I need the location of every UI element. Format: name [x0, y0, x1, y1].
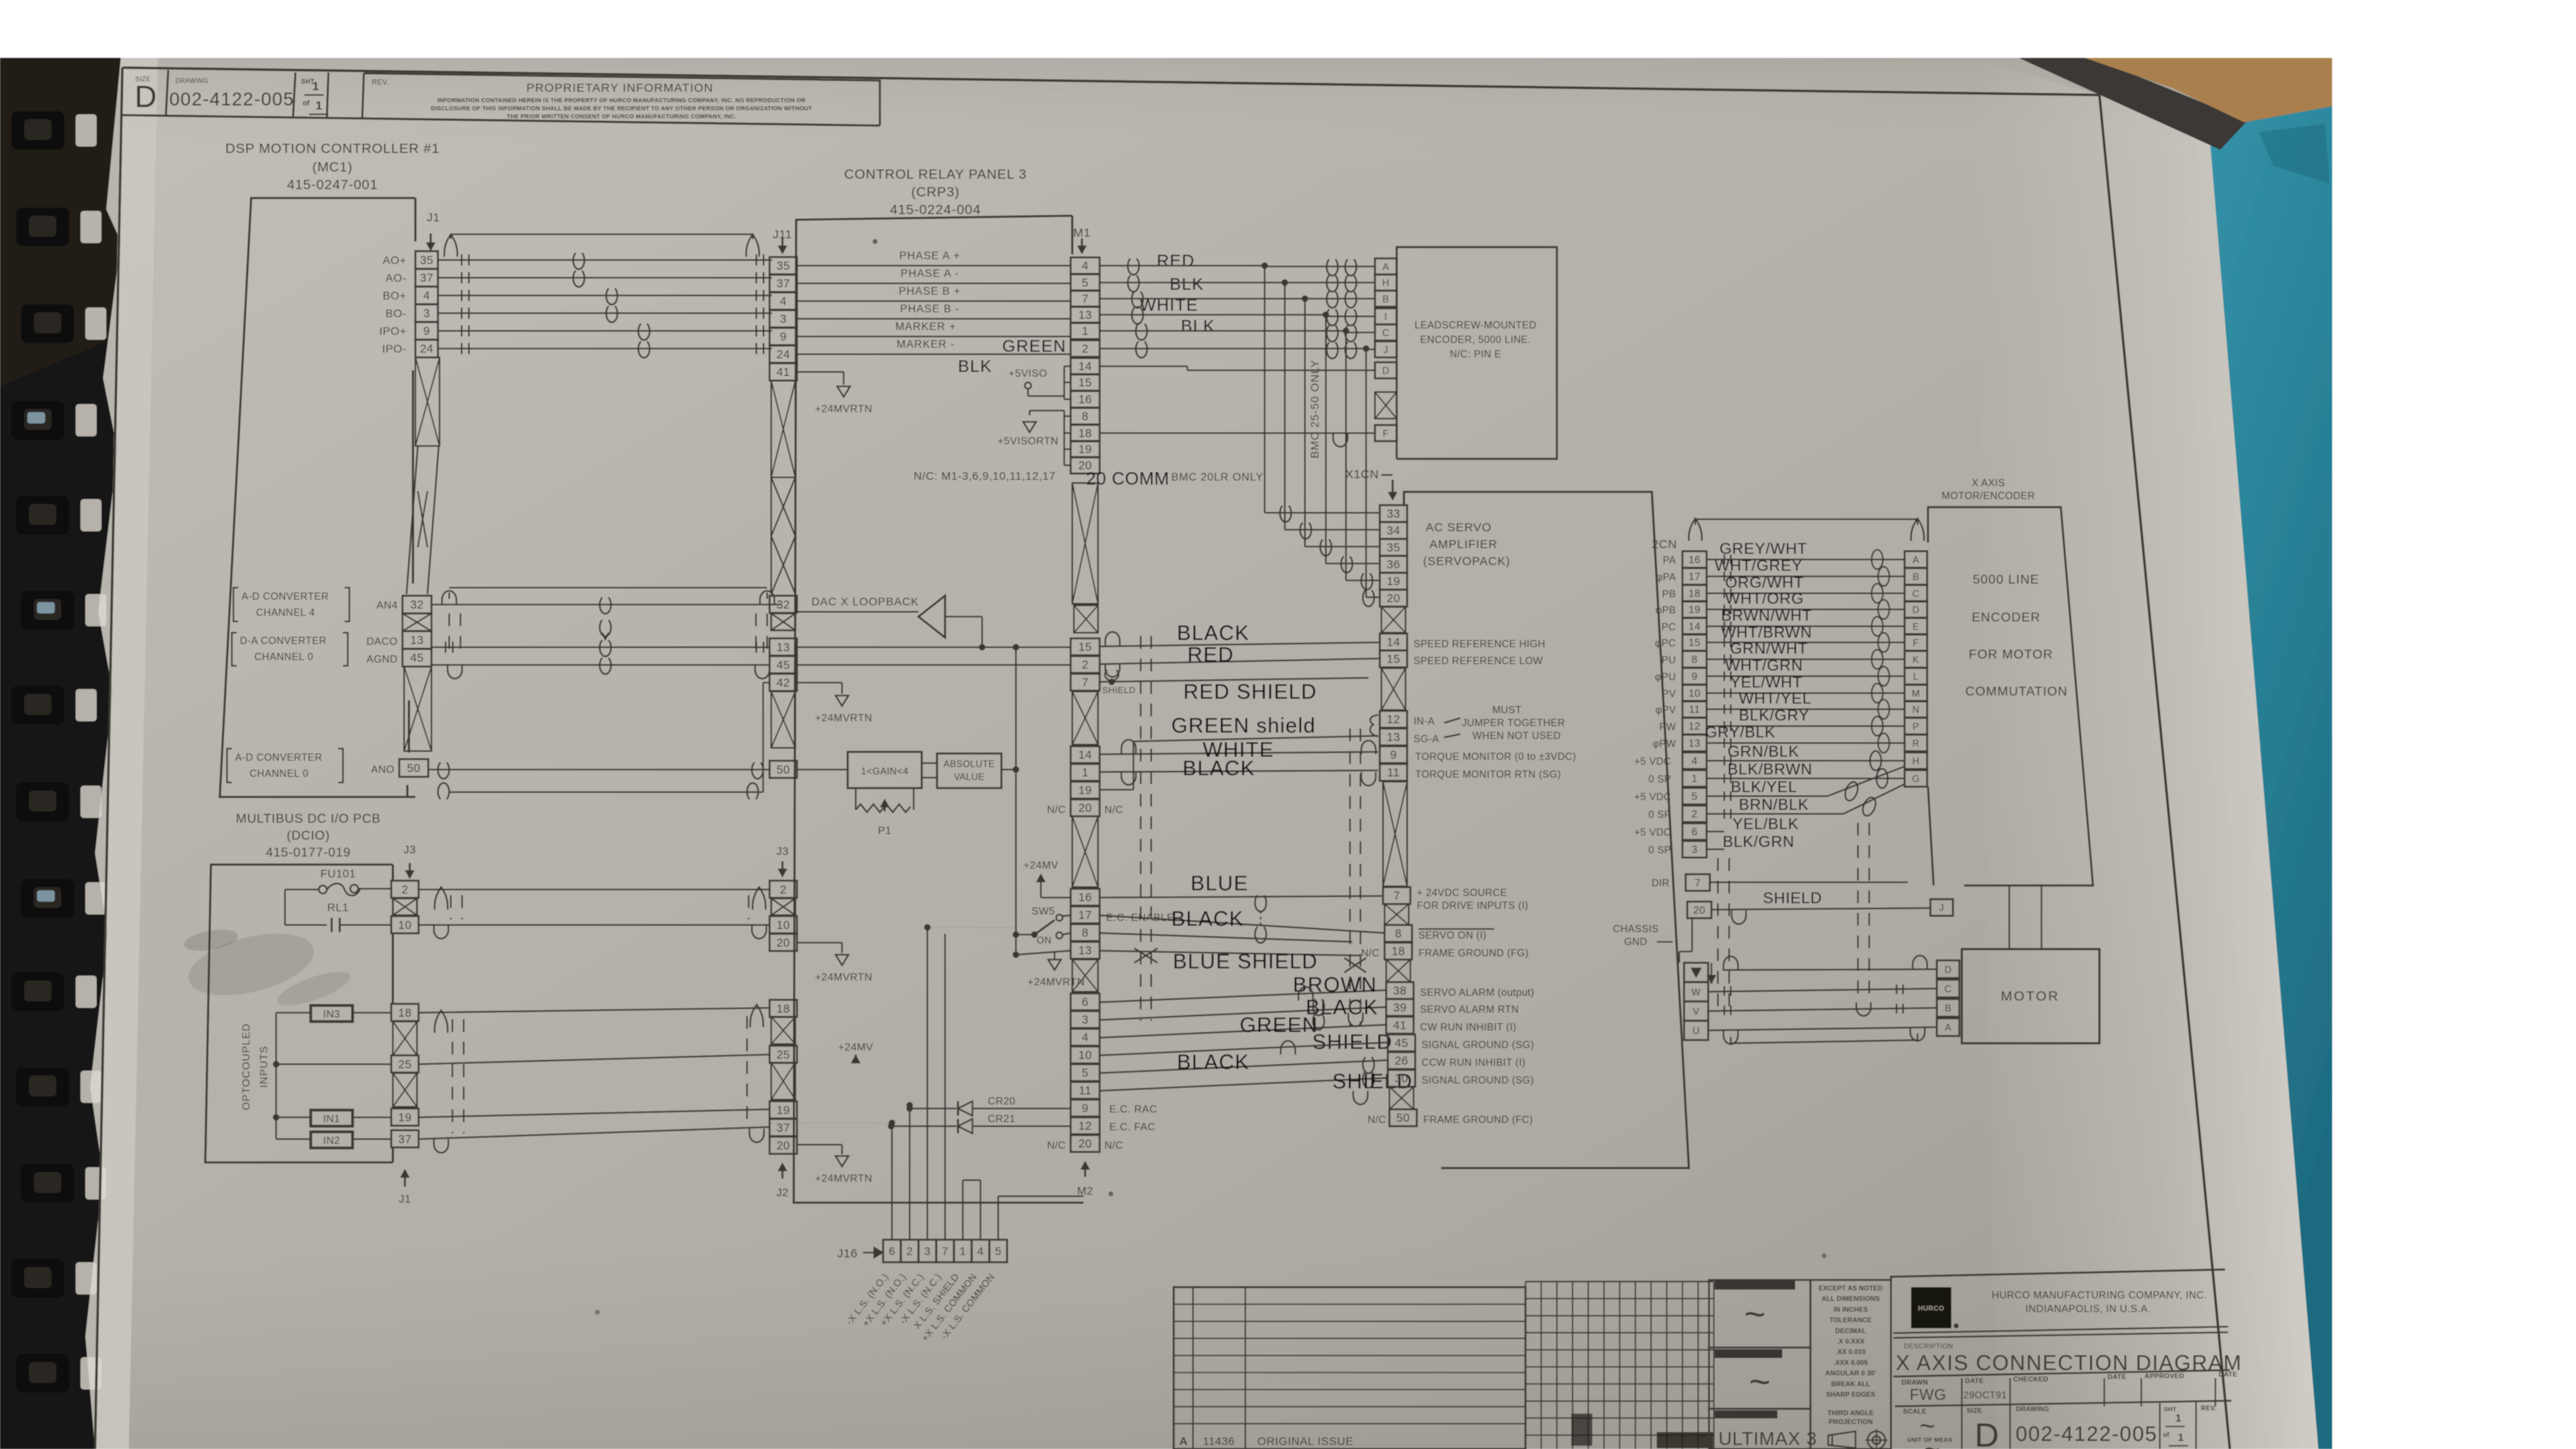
M1 pin 1 lower [1071, 764, 1100, 781]
svg-text:1: 1 [2175, 1412, 2181, 1424]
svg-text:0 SP: 0 SP [1649, 809, 1671, 820]
svg-text:SHIELD: SHIELD [1102, 686, 1136, 696]
J11 pin 24 [770, 345, 797, 362]
J11 crossed box [771, 613, 795, 630]
svg-text:15: 15 [1079, 377, 1092, 390]
M2 pin 11 [1071, 1082, 1100, 1099]
svg-text:14: 14 [1079, 361, 1092, 374]
svg-text:11: 11 [1689, 704, 1700, 716]
svg-text:N/C: N/C [1104, 803, 1123, 815]
M1 pin 14 lower [1071, 746, 1100, 763]
X1CN pin 11 [1380, 764, 1407, 781]
wires M1 pins to leadscrew encoder with junction dots [1128, 258, 1139, 275]
svg-text:10: 10 [398, 919, 412, 932]
svg-text:PA: PA [1663, 555, 1677, 566]
input IN1 box [311, 1110, 353, 1126]
svg-text:+5VISO: +5VISO [1009, 367, 1047, 379]
svg-text:38: 38 [1393, 985, 1407, 998]
svg-text:FRAME GROUND (FC): FRAME GROUND (FC) [1423, 1114, 1533, 1125]
svg-text:J1: J1 [427, 211, 440, 225]
svg-text:ENCODER: ENCODER [1971, 611, 2041, 625]
M2 pin 12 [1071, 1117, 1100, 1134]
DCIO edge segment [392, 934, 394, 1004]
J11 tail below 42 [771, 691, 795, 748]
M2 pin 20 N/C [1071, 1135, 1100, 1152]
junction dot IN wires [273, 1061, 279, 1067]
wire M1-14 to X1CN-9 WHITE [1100, 752, 1378, 754]
motor pin C [1937, 980, 1959, 997]
svg-text:1<GAIN<4: 1<GAIN<4 [861, 766, 908, 777]
svg-text:2: 2 [402, 884, 408, 897]
wire M2-8 to dashes [1100, 933, 1352, 942]
svg-text:13: 13 [777, 642, 791, 654]
J16 pin 4 [972, 1240, 989, 1262]
multibus DCIO box [205, 865, 393, 1162]
wire M1-7 RED SHIELD [1100, 678, 1368, 682]
svg-text:1: 1 [312, 80, 319, 93]
svg-text:MOTOR: MOTOR [2001, 989, 2060, 1004]
svg-text:INDIANAPOLIS, IN U.S.A.: INDIANAPOLIS, IN U.S.A. [2025, 1303, 2151, 1315]
AC servo amplifier box [1404, 492, 1689, 1168]
svg-text:REV.: REV. [2201, 1404, 2216, 1412]
encoder pin A [1905, 551, 1927, 568]
J1 pin 24 (IPO-) [415, 340, 438, 357]
M1 pin 14 [1071, 358, 1100, 375]
svg-text:10: 10 [777, 919, 791, 932]
svg-text:DATE: DATE [1965, 1377, 1984, 1385]
svg-text:19: 19 [1387, 576, 1401, 588]
svg-text:13: 13 [1079, 945, 1092, 958]
input IN3 box [311, 1005, 353, 1022]
svg-text:WHT/YEL: WHT/YEL [1739, 690, 1811, 708]
svg-text:D-A CONVERTER: D-A CONVERTER [240, 635, 327, 646]
svg-text:WHT/GRN: WHT/GRN [1725, 657, 1803, 675]
svg-text:5: 5 [1691, 791, 1698, 803]
svg-text:ENCODER, 5000 LINE.: ENCODER, 5000 LINE. [1420, 334, 1531, 345]
wire M1 top 1 to encoder/X1CN [1100, 282, 1285, 283]
proprietary information box [364, 73, 880, 126]
svg-text:ON: ON [1037, 935, 1052, 946]
X1CN pin 41 [1386, 1017, 1414, 1034]
svg-text:~: ~ [1744, 1293, 1766, 1335]
svg-text:CHANNEL 0: CHANNEL 0 [250, 768, 308, 779]
wire J11-13 to M1-15 (DACO) [797, 646, 1071, 648]
J16 wire pin4 [980, 1180, 981, 1240]
svg-text:35: 35 [420, 254, 434, 267]
svg-text:BLK: BLK [958, 357, 993, 376]
svg-text:LEADSCREW-MOUNTED: LEADSCREW-MOUNTED [1414, 320, 1536, 331]
svg-text:X1CN: X1CN [1345, 468, 1379, 481]
wire J11-32 to buffer output [797, 611, 919, 613]
ground +24MVRTN at J11-42 [836, 696, 848, 706]
2CN pin 20 [1687, 902, 1711, 919]
wire DCIO-2 to CRP3 J3-2 [419, 889, 770, 890]
svg-text:+24MV: +24MV [1023, 859, 1059, 871]
svg-text:19: 19 [1079, 785, 1092, 798]
svg-text:16: 16 [1688, 554, 1700, 566]
wire M2-13 BLUE SHIELD [1100, 951, 1360, 956]
M1 pin 7 [1071, 291, 1100, 308]
svg-text:9: 9 [1691, 671, 1698, 683]
svg-text:N/C: N/C [1368, 1113, 1386, 1125]
buffer input wire to DACO line [945, 616, 982, 617]
title bar size cell [122, 115, 880, 126]
svg-text:FWG: FWG [1909, 1387, 1946, 1404]
IN1 wires [273, 1114, 279, 1121]
wire 2CN-16 to encoder A (GREY/WHT) [1707, 559, 1905, 560]
shield line above AN4 pair [449, 587, 767, 588]
svg-text:+24MVRTN: +24MVRTN [815, 1172, 872, 1184]
projection symbol cone [1828, 1431, 1856, 1448]
svg-text:30: 30 [1395, 1073, 1409, 1086]
gain block 1<GAIN<4 [848, 752, 922, 788]
svg-text:37: 37 [777, 278, 791, 291]
J11 pin 42 box [770, 674, 797, 691]
svg-text:(DCIO): (DCIO) [287, 829, 330, 843]
CRP3 J3 pin 25 [770, 1046, 797, 1063]
wire 2CN-8 to encoder K (GRN/WHT) [1707, 658, 1905, 660]
svg-text:2: 2 [906, 1245, 913, 1257]
encoder pin K [1905, 651, 1927, 668]
J11 pin 4 [770, 292, 797, 309]
svg-text:MOTOR/ENCODER: MOTOR/ENCODER [1942, 490, 2035, 502]
drop wire to X1CN pin 35 [1304, 299, 1306, 547]
M1 pin 20 N/C [1071, 799, 1100, 816]
svg-text:X AXIS: X AXIS [1971, 477, 2004, 489]
wire J11-50 to gain block [797, 769, 848, 770]
svg-text:AO-: AO- [386, 271, 407, 284]
svg-text:BO-: BO- [386, 307, 407, 320]
leadscrew pin A [1375, 258, 1397, 275]
connector J1 label DCIO bottom [404, 1175, 406, 1187]
svg-text:IPO+: IPO+ [379, 324, 407, 337]
svg-text:BLACK: BLACK [1183, 756, 1255, 780]
svg-text:16: 16 [1079, 892, 1092, 905]
dashed shield pair left of X1CN [1349, 729, 1351, 1026]
X1CN crossed box 1 [1381, 607, 1406, 633]
X1CN pin 35 [1380, 539, 1407, 556]
title block header box [1891, 1269, 2225, 1280]
svg-text:B: B [1382, 293, 1389, 304]
X1CN pin 7 [1383, 887, 1410, 904]
wire M1-19 up to GREEN shield [1100, 789, 1133, 791]
svg-text:IN INCHES: IN INCHES [1834, 1305, 1868, 1313]
svg-text:APPROVED: APPROVED [2145, 1372, 2184, 1380]
svg-text:DSP MOTION CONTROLLER #1: DSP MOTION CONTROLLER #1 [225, 141, 440, 156]
svg-text:5: 5 [1082, 277, 1088, 290]
J16 pin 3 [919, 1240, 936, 1262]
J16 wire pin7 [944, 934, 946, 1240]
svg-text:32: 32 [411, 599, 424, 612]
M1 pin 2 lower [1071, 656, 1100, 673]
speck marks [873, 239, 877, 244]
2CN pin 10 (PV) [1682, 685, 1707, 702]
long junction wire vertical [1015, 647, 1017, 955]
X1CN pin 33 [1380, 506, 1407, 522]
svg-text:GRY/BLK: GRY/BLK [1705, 724, 1776, 741]
M1 pin 8 [1071, 408, 1100, 425]
svg-text:50: 50 [777, 764, 791, 777]
svg-text:18: 18 [398, 1007, 412, 1020]
svg-text:25: 25 [777, 1049, 791, 1062]
svg-text:9: 9 [1082, 1103, 1088, 1116]
J11 pin 50 box [770, 761, 797, 778]
svg-text:+5 VDC: +5 VDC [1634, 827, 1671, 838]
hurco logo [1911, 1287, 1951, 1328]
svg-text:10: 10 [1688, 687, 1700, 700]
X1CN crossed box 5 [1389, 1087, 1414, 1109]
svg-text:YEL/BLK: YEL/BLK [1732, 815, 1799, 833]
connector J2 label [782, 1169, 783, 1179]
svg-text:9: 9 [1390, 749, 1397, 762]
wire 2CN-10 to encoder M (YEL/WHT) [1707, 692, 1905, 694]
DCIO pin 2 [391, 881, 419, 898]
wire J1-24 to J11-24 [438, 348, 772, 349]
encoder pin J [1930, 899, 1953, 916]
wires encoder box to motor box [2008, 885, 2010, 949]
svg-text:P: P [1913, 720, 1919, 732]
svg-text:HURCO MANUFACTURING COMPANY, I: HURCO MANUFACTURING COMPANY, INC. [1992, 1290, 2207, 1301]
J11 pin 13 box [770, 638, 797, 655]
DCIO pin 25 [391, 1055, 419, 1072]
wire IN3 to pin 18 [353, 1012, 391, 1013]
svg-text:~: ~ [1749, 1360, 1771, 1402]
wire J11-45 to M1-2 (AGND) [797, 664, 1071, 666]
J1 cable crossing tail [415, 357, 440, 446]
svg-text:7: 7 [942, 1245, 948, 1257]
X1CN pin 13 [1380, 729, 1407, 745]
svg-text:DRAWING: DRAWING [175, 77, 208, 85]
2CN pin 8 (PU) [1682, 651, 1707, 668]
wire J1-35 to J11-35 [438, 259, 772, 261]
svg-text:12: 12 [1079, 1121, 1092, 1133]
wire MC1-32 to J11-32 (AN4) [431, 604, 780, 605]
svg-text:R: R [1913, 737, 1920, 749]
svg-text:A: A [1179, 1435, 1187, 1447]
svg-text:GRN/BLK: GRN/BLK [1728, 743, 1799, 761]
svg-text:COMMUTATION: COMMUTATION [1965, 685, 2067, 699]
svg-text:10: 10 [1079, 1050, 1092, 1063]
drop wire to X1CN pin 34 [1284, 283, 1286, 530]
M2 pin 4 [1071, 1029, 1100, 1046]
wire 2CN-7 DIR [1710, 881, 1908, 883]
J11 pin41 wire to ground [797, 371, 844, 373]
svg-text:16: 16 [1079, 394, 1092, 407]
svg-text:PHASE B -: PHASE B - [900, 303, 960, 315]
encoder pin N [1905, 701, 1927, 718]
wire 2CN-1 to encoder G BLK/BRWN [1707, 778, 1905, 779]
svg-text:14: 14 [1079, 749, 1092, 762]
svg-text:SIGNAL GROUND (SG): SIGNAL GROUND (SG) [1422, 1075, 1534, 1086]
svg-text:20: 20 [1079, 803, 1092, 815]
svg-text:45: 45 [411, 652, 424, 665]
M1 pin 20 [1071, 457, 1100, 474]
leadscrew pin F [1375, 425, 1397, 441]
leadscrew crossed N/C pin [1375, 392, 1397, 419]
svg-text:M2: M2 [1077, 1184, 1093, 1197]
CRP3 J3 pin 18 [770, 1000, 797, 1017]
svg-text:D: D [134, 80, 156, 114]
svg-text:1: 1 [1691, 773, 1698, 785]
M1 pin 19 [1071, 441, 1100, 458]
wire M2-5 BLACK to X1CN-26 [1100, 1060, 1388, 1073]
X1CN pin 34 [1380, 522, 1407, 539]
wire 2CN-12 to encoder P (BLK/GRY) [1707, 725, 1905, 727]
control relay panel CRP3 box [794, 216, 1084, 1203]
svg-text:PC: PC [1662, 621, 1676, 633]
diode CR21 [958, 1119, 972, 1133]
DCIO pin 18 [391, 1004, 419, 1021]
svg-text:20: 20 [1693, 904, 1705, 916]
wire 2CN-17 to encoder B (WHT/GREY) [1707, 576, 1905, 577]
M1 pin 5 [1071, 275, 1100, 291]
wire absolute value to junction [1001, 769, 1016, 770]
svg-text:SERVO ALARM (output): SERVO ALARM (output) [1420, 987, 1534, 998]
2CN pin 16 (PA) [1682, 551, 1707, 568]
wire M2-12 EC FAC through CR21 [972, 1125, 1071, 1127]
svg-text:IN3: IN3 [323, 1008, 340, 1020]
svg-text:PHASE B +: PHASE B + [898, 285, 960, 297]
svg-text:REV.: REV. [372, 78, 389, 86]
svg-text:17: 17 [1079, 910, 1092, 923]
svg-text:V: V [1693, 1005, 1699, 1017]
svg-text:+24MVRTN: +24MVRTN [815, 402, 872, 415]
wire M2-11 SHIELD to X1CN-30 [1100, 1078, 1388, 1091]
X1CN pin 20 [1380, 590, 1407, 607]
CRP3 J3 pin 20 [770, 934, 797, 951]
svg-text:B: B [1913, 571, 1919, 582]
svg-text:GND: GND [1624, 936, 1648, 947]
twisted pair symbols AO/BO/IPO [573, 253, 584, 269]
svg-text:.XXX 0.005: .XXX 0.005 [1834, 1358, 1868, 1366]
svg-text:ANO: ANO [371, 763, 394, 775]
DSP motion controller MC1 box [220, 198, 415, 797]
svg-text:BLK: BLK [1181, 317, 1216, 336]
motor pin A [1937, 1018, 1959, 1036]
svg-text:SERVO ON (I): SERVO ON (I) [1418, 930, 1487, 941]
svg-text:PHASE A -: PHASE A - [901, 267, 959, 279]
svg-text:+24MVRTN: +24MVRTN [815, 712, 872, 724]
svg-text:E.C. FAC: E.C. FAC [1109, 1121, 1155, 1133]
ground +24MVRTN at M2-13 wire [1048, 960, 1061, 970]
svg-text:SHIELD: SHIELD [1763, 890, 1822, 907]
svg-text:37: 37 [420, 272, 434, 285]
encoder pin P [1905, 718, 1927, 735]
encoder pin L [1905, 668, 1927, 685]
svg-text:BLK/GRY: BLK/GRY [1739, 707, 1810, 724]
wire 2CN-9 to encoder L (WHT/GRN) [1707, 675, 1905, 677]
svg-text:50: 50 [407, 762, 421, 775]
svg-text:14: 14 [1688, 621, 1700, 633]
svg-text:20: 20 [1387, 592, 1401, 605]
svg-text:DIR: DIR [1652, 877, 1670, 889]
svg-text:K: K [1913, 654, 1919, 665]
svg-text:MARKER -: MARKER - [897, 338, 955, 350]
svg-text:3: 3 [924, 1245, 931, 1257]
2CN pin 1 (0 SP) [1682, 770, 1707, 787]
svg-text:002-4122-005: 002-4122-005 [2016, 1422, 2157, 1446]
wire DCIO-19 to CRP3 J3-19 [419, 1109, 770, 1117]
wire junction to M2-13 [1016, 951, 1071, 955]
svg-text:3: 3 [1691, 844, 1698, 856]
svg-text:BO+: BO+ [382, 289, 407, 302]
svg-text:F: F [1383, 427, 1389, 439]
svg-text:D: D [1913, 604, 1920, 615]
wire 2CN-20 SHIELD to J [1711, 908, 1930, 910]
svg-text:THIRD ANGLE: THIRD ANGLE [1827, 1409, 1874, 1417]
svg-text:MARKER +: MARKER + [895, 320, 956, 332]
J16 wire pin2 from J3-19 and CR20 [906, 1102, 913, 1108]
encoder pin E [1905, 618, 1927, 635]
leadscrew pin I [1375, 308, 1397, 324]
wire 2CN-14 to encoder E (BRWN/WHT) [1707, 625, 1905, 627]
X1CN crossed box 3 [1385, 904, 1409, 925]
svg-text:J: J [1939, 902, 1944, 914]
svg-text:+5 VDC: +5 VDC [1634, 791, 1671, 803]
loopback buffer triangle [919, 596, 945, 638]
X1CN pin 45 [1388, 1034, 1415, 1051]
2CN pin 18 (PB) [1682, 585, 1707, 602]
svg-text:7: 7 [1393, 890, 1400, 903]
2CN pin 5 (+5 VDC) [1682, 788, 1707, 805]
svg-text:+24MV: +24MV [838, 1041, 873, 1053]
svg-text:BLACK: BLACK [1171, 906, 1244, 931]
cardboard corner top right [2085, 58, 2332, 122]
svg-text:J2: J2 [776, 1186, 788, 1199]
wire U to motor A [1708, 1027, 1937, 1030]
svg-text:PROJECTION: PROJECTION [1829, 1418, 1873, 1426]
M2 pin 6 [1071, 993, 1100, 1010]
drop wire to X1CN pin 36 [1325, 316, 1327, 563]
svg-text:2CN: 2CN [1652, 538, 1677, 551]
M1/M2 crossing [1072, 816, 1098, 887]
svg-text:~: ~ [1924, 1435, 1940, 1449]
svg-text:SIGNAL GROUND (SG): SIGNAL GROUND (SG) [1422, 1039, 1534, 1051]
svg-text:19: 19 [1079, 444, 1092, 456]
X axis motor encoder box [1928, 507, 2093, 885]
wire MC1-45 to J11-45 (AGND) [431, 664, 770, 666]
svg-text:2: 2 [1691, 808, 1698, 820]
J16 pin 2 [901, 1240, 919, 1262]
wire W to motor C [1708, 989, 1937, 992]
svg-text:I: I [1385, 311, 1388, 322]
wire 2CN-3 stub [1707, 848, 1724, 850]
svg-text:M: M [1912, 687, 1920, 699]
svg-text:φPU: φPU [1655, 671, 1676, 683]
svg-text:12: 12 [1387, 714, 1401, 727]
svg-text:P1: P1 [878, 824, 892, 836]
svg-text:FU101: FU101 [320, 867, 356, 880]
dashed pair below 2CN [1717, 858, 1719, 1016]
svg-text:WHT/ORG: WHT/ORG [1725, 590, 1804, 608]
svg-text:35: 35 [1387, 542, 1401, 555]
wire M2-3 BLACK to X1CN-39 [1100, 1007, 1386, 1020]
svg-text:SHIELD: SHIELD [1312, 1030, 1393, 1054]
J11 pin 35 [770, 257, 797, 274]
ANO shield rise to J11-42 [762, 683, 764, 792]
svg-text:11436: 11436 [1203, 1435, 1234, 1447]
svg-text:DRAWN: DRAWN [1901, 1378, 1928, 1386]
dashed shield pair near M1 lower [1140, 636, 1141, 1021]
svg-text:BLK: BLK [1170, 275, 1204, 294]
svg-text:φPC: φPC [1655, 638, 1676, 649]
J11 pin 41 [770, 363, 797, 380]
svg-text:13: 13 [1688, 737, 1700, 749]
J1 pin 3 (BO-) [415, 304, 438, 322]
M2 pin 17 [1071, 906, 1100, 923]
svg-text:CCW RUN INHIBIT (I): CCW RUN INHIBIT (I) [1422, 1057, 1525, 1068]
svg-text:GREEN: GREEN [1240, 1013, 1318, 1037]
